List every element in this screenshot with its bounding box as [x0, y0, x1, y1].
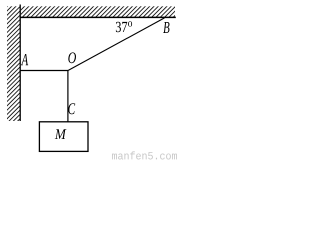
string OC [67, 71, 69, 122]
angle superscript 0 [128, 21, 132, 26]
label O [68, 52, 76, 63]
ceiling face line [20, 16, 176, 18]
label C [68, 103, 75, 114]
wall hatched strip [7, 6, 20, 121]
block M box [39, 122, 88, 152]
label A [21, 54, 28, 65]
label B [163, 22, 169, 33]
angle 37 [116, 22, 127, 32]
wall face line [19, 5, 21, 122]
label M [55, 129, 67, 139]
watermark manfen5.com [112, 151, 177, 159]
rod AO [20, 70, 68, 72]
ceiling hatched strip [21, 6, 175, 17]
rope OB [68, 18, 165, 71]
